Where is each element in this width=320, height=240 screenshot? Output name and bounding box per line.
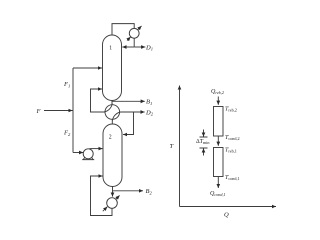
column 1 (distillation column shell) [103,35,122,101]
wire: bottoms product B2 line [113,190,144,192]
svg-text:Treb,2: Treb,2 [225,107,237,114]
svg-text:B1: B1 [146,99,152,106]
svg-text:F2: F2 [63,130,71,137]
wire: feed F2 to pump [73,152,83,154]
svg-text:Q: Q [224,212,229,219]
box column 1 T-span (lower rectangle) [214,148,224,177]
svg-text:Qcond,1: Qcond,1 [210,191,226,198]
wire: column 1 reboiler loop (exchanger to column 1) [91,89,105,112]
svg-text:F1: F1 [63,81,70,88]
pump P1 (feed pump, column 2) [83,149,93,159]
dimension arrow lower [203,148,205,155]
wire: exchanger to column 2 top [111,119,113,124]
heat-in arrow of reboiler R2 [103,207,108,212]
T axis (temperature axis) [179,86,181,207]
svg-text:Treb,1: Treb,1 [225,148,237,155]
wire: condenser outlet drop [133,38,135,47]
svg-text:D2: D2 [145,109,154,116]
svg-text:ΔTmin: ΔTmin [196,139,210,145]
wire: column 2 reboiler loop [91,176,113,216]
condenser C1 (overhead condenser, column 1) [129,28,139,38]
svg-text:B2: B2 [146,188,153,195]
svg-text:1: 1 [109,46,112,52]
svg-text:T: T [170,143,174,150]
wire: distillate D2 line [120,111,144,113]
wire: column 2 bottoms down line [112,187,114,197]
box column 2 T-span (upper rectangle) [214,107,224,137]
arrow Qreb2 into upper box [217,97,219,105]
reboiler R2 (column 2 reboiler) [107,198,118,209]
heat exchanger E1 (column 2 condenser / column 1 reboiler) [105,105,120,120]
wire: feed F1 into column 1 [73,67,102,69]
Q axis (heat duty axis) [180,206,277,208]
wire: pump outlet into column 2 [90,148,103,150]
wire: column 2 reflux return [123,112,134,135]
wire: feed split vertical [72,68,74,153]
arrow Qcond1 out of lower box [217,177,219,189]
svg-text:Qreb,2: Qreb,2 [211,89,224,96]
wire: bottoms product B1 line [112,100,145,102]
svg-text:D1: D1 [145,44,153,51]
svg-text:Tcond,2: Tcond,2 [225,135,240,142]
wire: feed line F [44,110,73,112]
heat-out arrow of condenser C1 [127,37,131,41]
arrow heat transfer between boxes [217,136,219,146]
column 2 (distillation column shell) [103,124,122,187]
svg-text:F: F [36,108,42,115]
wire: column 1 overhead vapor line [112,24,134,35]
svg-text:2: 2 [109,135,112,141]
dimension ticks dT min [200,137,208,148]
dimension arrow upper [203,130,205,137]
wire: reflux + distillate D1 line [122,46,134,48]
wire: column 1 bottoms to exchanger [111,101,113,105]
svg-text:Tcond,1: Tcond,1 [225,175,240,182]
